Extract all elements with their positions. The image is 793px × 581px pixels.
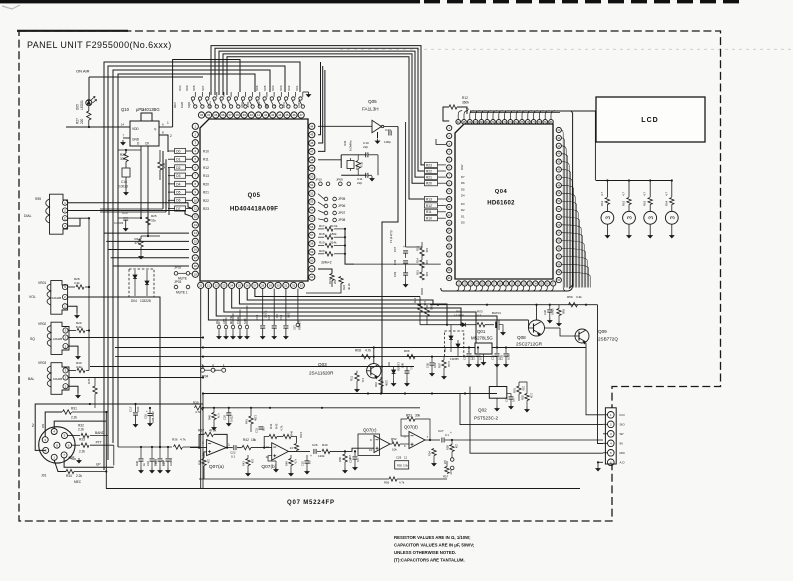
svg-text:Q08: Q08: [517, 335, 526, 340]
svg-text:C02: C02: [472, 355, 476, 360]
svg-text:R38: R38: [198, 460, 202, 465]
svg-text:S08: S08: [192, 85, 196, 91]
svg-text:2SA11620R: 2SA11620R: [309, 371, 334, 376]
diode D03 131555: [392, 370, 396, 374]
svg-text:HD61602: HD61602: [487, 201, 515, 207]
svg-text:3.3k: 3.3k: [403, 464, 409, 468]
wire Q02 connections: [496, 357, 498, 387]
signal tags R13-R10 at Q04: [425, 196, 438, 201]
svg-text:CALL: CALL: [208, 100, 212, 108]
svg-text:D02: D02: [443, 346, 447, 352]
svg-text:Q10: Q10: [121, 107, 130, 112]
svg-text:R19: R19: [319, 241, 325, 245]
svg-text:44: 44: [310, 124, 314, 128]
Q04 left pin column: [447, 125, 452, 130]
svg-text:C06: C06: [401, 363, 405, 368]
wire Q07b out: [288, 450, 310, 452]
svg-text:Q01: Q01: [477, 329, 486, 334]
wire MIC line to amp: [105, 412, 107, 489]
svg-text:JP04: JP04: [201, 375, 208, 379]
svg-text:R61: R61: [600, 200, 604, 206]
svg-text:S02: S02: [287, 85, 291, 91]
svg-text:LOW: LOW: [257, 101, 261, 108]
svg-text:MUTE 1: MUTE 1: [176, 291, 188, 295]
resistor R11 1% left: [355, 373, 359, 381]
resistor R27 220: [88, 106, 90, 111]
svg-text:R42: R42: [243, 438, 249, 442]
svg-text:+: +: [262, 312, 264, 316]
Q05 right pin column: [309, 123, 315, 129]
IC Q04 HD61602 body: [455, 124, 553, 279]
svg-text:R05: R05: [430, 305, 434, 310]
op-amp Q07(a): [207, 440, 227, 456]
svg-text:ON AIR: ON AIR: [76, 69, 90, 74]
wire Q09 emitter to rail: [581, 305, 583, 329]
svg-text:R12: R12: [426, 204, 432, 208]
svg-text:R50: R50: [338, 457, 342, 462]
svg-text:D04: D04: [131, 299, 137, 303]
svg-text:D6: D6: [176, 199, 180, 203]
capacitor C23 0.1: [507, 391, 511, 393]
svg-text:C25: C25: [301, 461, 305, 466]
svg-text:46: 46: [310, 141, 314, 145]
svg-text:30: 30: [277, 283, 281, 287]
svg-text:49: 49: [310, 166, 314, 170]
op-amp Q07(b): [272, 443, 289, 460]
svg-text:3.3k: 3.3k: [576, 295, 582, 299]
svg-text:0.1: 0.1: [445, 433, 449, 437]
wire mid verticals to Q04 bus: [436, 139, 446, 145]
svg-text:BAT01: BAT01: [492, 311, 501, 315]
capacitor C11 22p: [341, 174, 367, 176]
svg-text:4.7k: 4.7k: [280, 425, 284, 431]
svg-text:R21: R21: [426, 176, 432, 180]
resistor R58 22k and jumper: [450, 445, 454, 452]
svg-text:S10: S10: [178, 85, 182, 91]
capacitor C33 100p: [384, 126, 398, 128]
svg-text:R56: R56: [384, 481, 390, 485]
svg-text:D5: D5: [461, 187, 465, 191]
wire top bus Pi-shaped nest: [211, 46, 425, 165]
svg-text:16: 16: [194, 248, 198, 252]
svg-text:R34: R34: [66, 474, 72, 478]
wire Q07a plus gnd: [204, 452, 207, 458]
wire Q08 base line: [528, 327, 530, 329]
svg-text:4.7: 4.7: [600, 192, 604, 196]
svg-text:31: 31: [284, 283, 288, 287]
svg-text:17: 17: [194, 256, 198, 260]
potentiometer VR01 VOL: [51, 281, 68, 315]
svg-text:R11: R11: [426, 210, 432, 214]
svg-text:11: 11: [194, 207, 197, 211]
svg-text:R58: R58: [446, 445, 450, 450]
svg-text:R20: R20: [319, 249, 325, 253]
svg-text:4.7: 4.7: [477, 314, 482, 318]
wire VR01 pin1 gnd: [68, 306, 77, 313]
svg-text:Q05: Q05: [248, 193, 261, 199]
lamp L4 with resistor R64 4.7: [671, 181, 673, 198]
svg-text:43: 43: [271, 113, 275, 117]
svg-text:53: 53: [310, 200, 314, 204]
capacitor C28 12 box: [395, 461, 409, 469]
svg-text:C08: C08: [393, 259, 397, 265]
svg-text:180k: 180k: [330, 232, 337, 236]
svg-text:18k: 18k: [251, 438, 257, 442]
resistor R45 4.7k vertical: [93, 386, 97, 394]
svg-text:+: +: [403, 245, 405, 249]
svg-text:131555: 131555: [397, 362, 401, 371]
svg-text:0.01: 0.01: [287, 312, 291, 318]
svg-text:220k: 220k: [385, 380, 389, 386]
wire Q04 right comb: [561, 130, 563, 288]
svg-text:LED01: LED01: [80, 100, 84, 110]
capacitor C17 0.01: [135, 404, 137, 412]
resistor R16 1M: [356, 161, 360, 169]
wire VR03 wiper: [69, 377, 203, 379]
svg-text:0.0033: 0.0033: [114, 221, 124, 225]
svg-text:C13: C13: [279, 314, 283, 320]
svg-text:100: 100: [449, 470, 453, 475]
svg-text:D2: D2: [461, 208, 465, 212]
svg-text:44: 44: [278, 113, 282, 117]
jumper JP02 MUTE: [174, 272, 178, 276]
svg-text:58: 58: [310, 242, 314, 246]
svg-text:VR02: VR02: [38, 322, 46, 326]
svg-text:JP05: JP05: [338, 197, 345, 201]
svg-text:120k: 120k: [254, 415, 258, 421]
wire left vertical x89: [88, 218, 90, 370]
svg-text:R22: R22: [203, 199, 209, 203]
svg-text:TONE: TONE: [236, 316, 240, 324]
svg-text:R11: R11: [350, 376, 354, 381]
wire rail E bottom (y=488.5): [106, 488, 580, 490]
svg-text:C03: C03: [500, 355, 504, 360]
svg-text:C07: C07: [393, 246, 397, 252]
regulator Q02 PST523C-2: [489, 387, 507, 399]
svg-text:57: 57: [310, 233, 314, 237]
wire VR02 pin1 gnd: [69, 346, 78, 354]
capacitor C20 0.022: [226, 412, 231, 414]
svg-text:133228: 133228: [140, 299, 151, 303]
wire amp out verticals: [460, 394, 603, 425]
wire volume line into amp: [118, 446, 172, 448]
svg-text:33k: 33k: [151, 219, 156, 223]
wire Q04 bottom comb: [455, 286, 459, 291]
svg-text:RESISTOR VALUES ARE IN Ω, 1/10: RESISTOR VALUES ARE IN Ω, 1/10W;: [394, 535, 471, 540]
jumper JP04: [201, 368, 205, 372]
svg-text:C16: C16: [144, 414, 148, 419]
svg-text:R27: R27: [76, 118, 80, 124]
scan artifact: faint gray fold line: [340, 48, 793, 50]
capacitor C18 0.0033: [122, 168, 130, 177]
lamp L2 with resistor R62 4.7: [628, 181, 630, 198]
svg-text:0.1: 0.1: [512, 398, 516, 402]
svg-text:R17: R17: [319, 224, 325, 228]
wire VR03 pin1 gnd: [69, 386, 78, 393]
svg-text:1: 1: [228, 443, 230, 447]
svg-text:D3: D3: [176, 174, 180, 178]
svg-text:12: 12: [404, 456, 408, 460]
wire amp supply line: [203, 407, 420, 409]
svg-text:3: 3: [627, 216, 634, 220]
capacitor C13 0.01: [285, 289, 287, 325]
jumper JP09: [339, 182, 343, 186]
capacitor C13 0.0033 left: [123, 217, 128, 219]
svg-text:R11: R11: [203, 158, 209, 162]
svg-text:R57: R57: [443, 475, 449, 479]
svg-text:R14: R14: [215, 319, 219, 324]
svg-text:3.3%: 3.3%: [447, 361, 451, 368]
svg-text:2SB772Q: 2SB772Q: [598, 337, 618, 342]
resistor R52 10k: [390, 443, 392, 445]
svg-text:MIC: MIC: [620, 451, 626, 455]
svg-text:JP06: JP06: [338, 204, 345, 208]
svg-text:8.2k: 8.2k: [76, 325, 82, 329]
svg-text:R23: R23: [426, 163, 432, 167]
wire rail down to 9V pin: [598, 305, 604, 444]
Q05 top pin row: [198, 112, 204, 118]
wire verticals in amp area: [202, 394, 204, 489]
svg-text:R23: R23: [203, 207, 209, 211]
svg-text:DIAL: DIAL: [24, 214, 32, 218]
svg-text:4.7k: 4.7k: [399, 481, 405, 485]
capacitor C25 0.1: [305, 460, 310, 462]
capacitor C16 10/6.3WV: [149, 408, 151, 413]
svg-text:R01: R01: [513, 388, 517, 393]
resistor R25 33k: [146, 217, 150, 225]
svg-text:S04: S04: [271, 85, 275, 91]
resistor R43 10k below b: [246, 459, 250, 466]
capacitor row below Q01: [468, 348, 470, 354]
svg-text:10k: 10k: [423, 301, 427, 306]
wire Q05 lower-left pins bus: [104, 232, 189, 234]
svg-text:52: 52: [310, 191, 314, 195]
svg-text:Q04: Q04: [495, 189, 508, 195]
svg-text:(T):CAPACITORS ARE TANTALUM.: (T):CAPACITORS ARE TANTALUM.: [394, 558, 465, 563]
wire LCD left edge down to lamp bus: [594, 111, 596, 181]
Q10 pin 7 GND wire: [123, 137, 130, 139]
capacitor C31 0.1: [259, 426, 264, 428]
svg-text:4.7k: 4.7k: [294, 459, 298, 465]
svg-text:0.556: 0.556: [507, 353, 511, 360]
svg-text:45: 45: [310, 133, 314, 137]
svg-text:22k: 22k: [207, 459, 211, 464]
svg-text:MEC: MEC: [74, 480, 82, 484]
svg-text:VR01: VR01: [38, 281, 46, 285]
svg-text:R60: R60: [562, 309, 566, 314]
test point 31T RESET: [297, 289, 299, 323]
svg-text:22p: 22p: [357, 181, 362, 185]
svg-text:10k: 10k: [425, 260, 429, 265]
svg-text:VR04: VR04: [154, 459, 158, 466]
connector J01 (mic jack): [39, 427, 75, 463]
svg-text:LOCK: LOCK: [297, 100, 301, 108]
svg-text:APT: APT: [222, 318, 226, 324]
svg-text:R52: R52: [391, 437, 397, 441]
svg-text:R36: R36: [172, 438, 178, 442]
svg-text:VR03: VR03: [38, 361, 46, 365]
IC Q10 uPD4013BG: [130, 121, 159, 146]
svg-text:R45: R45: [87, 378, 91, 384]
LED D05 LED01: [86, 100, 92, 106]
svg-text:R25: R25: [151, 214, 157, 218]
svg-text:2.2k: 2.2k: [71, 416, 77, 420]
svg-text:4.7k: 4.7k: [195, 410, 201, 414]
svg-text:CPU: CPU: [282, 102, 286, 108]
svg-text:D1: D1: [461, 214, 465, 218]
IC Q05 HD404418A09F body: [200, 119, 308, 281]
svg-text:Q03: Q03: [318, 362, 327, 367]
notes: [394, 535, 475, 563]
svg-text:R45: R45: [275, 423, 279, 429]
svg-text:R20: R20: [203, 182, 209, 186]
svg-text:10kΩB: 10kΩB: [52, 296, 61, 300]
svg-text:R63: R63: [643, 200, 647, 206]
svg-text:13: 13: [194, 223, 198, 227]
svg-text:56: 56: [310, 225, 314, 229]
svg-text:C23: C23: [505, 397, 509, 402]
svg-text:+: +: [310, 454, 312, 458]
svg-text:4.7: 4.7: [664, 192, 668, 196]
jumpers JP05-JP08: [324, 197, 328, 201]
LCD module: [596, 97, 705, 142]
svg-text:R46: R46: [290, 430, 294, 436]
svg-text:C05: C05: [426, 363, 430, 368]
wire inverter output down: [382, 127, 398, 394]
svg-text:3: 3: [648, 216, 655, 220]
svg-text:JP03: JP03: [174, 280, 181, 284]
svg-text:C28: C28: [396, 456, 402, 460]
capacitor C14 2.2(T): [262, 289, 264, 325]
svg-text:R06: R06: [404, 349, 410, 353]
wire into pin6 gnd: [598, 462, 603, 466]
switch column under Q05 (APT MUTE TONE SUB): [218, 322, 220, 326]
resistor R50 22k: [343, 454, 347, 462]
resistor R35 30k: [158, 162, 162, 170]
wire Q08-Q09 link: [545, 327, 561, 329]
Q10 top pins loop: [141, 113, 152, 121]
svg-text:4.7: 4.7: [622, 192, 626, 196]
wire ladder output: [345, 229, 354, 264]
svg-text:131555: 131555: [454, 314, 464, 318]
svg-text:100p: 100p: [384, 140, 391, 144]
page border solid top-left segment: [17, 30, 128, 32]
svg-text:30k: 30k: [415, 414, 421, 418]
wire Q04 left pin stubs: [445, 127, 448, 129]
svg-text:10kΩB: 10kΩB: [53, 337, 62, 341]
wire right pins up-bus: [318, 62, 321, 135]
svg-text:C17: C17: [129, 406, 133, 412]
svg-text:25: 25: [238, 283, 242, 287]
wire bundle terminations: [103, 469, 105, 471]
svg-text:28: 28: [261, 283, 265, 287]
svg-text:20: 20: [199, 283, 203, 287]
svg-text:JP02: JP02: [174, 266, 181, 270]
svg-text:S07: S07: [201, 85, 205, 91]
potentiometer VR03 BAL: [51, 363, 69, 395]
svg-text:D7: D7: [461, 175, 465, 179]
svg-text:12: 12: [194, 215, 198, 219]
svg-text:39: 39: [243, 113, 247, 117]
svg-text:Q07(a): Q07(a): [209, 464, 224, 470]
D0-D7 signal tags at Q05: [175, 148, 186, 153]
svg-text:41: 41: [257, 113, 261, 117]
svg-text:R49: R49: [322, 443, 328, 447]
wire lamp bus: [596, 180, 672, 182]
wire Q07d output to C27: [425, 439, 440, 441]
svg-text:C14: C14: [255, 314, 259, 320]
svg-text:220: 220: [80, 118, 84, 124]
svg-text:C24: C24: [349, 458, 353, 463]
resistor R64 10k: [418, 304, 422, 312]
wire VR01 wiper to volume line: [68, 297, 160, 447]
svg-text:R31: R31: [71, 407, 77, 411]
svg-text:UP: UP: [96, 462, 101, 466]
svg-text:30k: 30k: [120, 157, 126, 161]
svg-text:RESET: RESET: [298, 320, 302, 330]
wire Q09 collector down: [586, 343, 603, 415]
Q10 CK wire: [147, 146, 149, 236]
svg-text:13: 13: [266, 445, 270, 449]
svg-text:C27: C27: [438, 429, 444, 433]
svg-text:61: 61: [310, 267, 314, 271]
svg-text:0.1: 0.1: [308, 460, 312, 464]
scan artifact: black strip along top edge: [0, 0, 420, 3]
svg-text:0.022: 0.022: [230, 415, 234, 422]
wire from Q10 up to bus: [173, 60, 240, 128]
svg-text:C30: C30: [543, 310, 547, 315]
svg-text:R44: R44: [269, 423, 273, 429]
Q10 pin 6 wire: [159, 126, 173, 128]
svg-text:Q09: Q09: [598, 329, 607, 334]
svg-text:14: 14: [290, 446, 294, 450]
svg-text:SIO: SIO: [620, 423, 626, 427]
svg-text:21: 21: [207, 283, 211, 287]
svg-text:51: 51: [310, 183, 314, 187]
svg-text:Q07(d): Q07(d): [404, 425, 418, 430]
svg-text:C31: C31: [491, 355, 495, 360]
op-amp Q07(d): [409, 432, 425, 449]
wire Q04 right bus vertical: [569, 111, 573, 289]
resistor R26 30k: [125, 150, 127, 153]
svg-text:PANEL UNIT F2955000(No.6xxx): PANEL UNIT F2955000(No.6xxx): [27, 40, 172, 50]
svg-text:R07: R07: [438, 363, 442, 368]
svg-text:SP: SP: [620, 432, 624, 436]
svg-text:45: 45: [285, 113, 289, 117]
svg-text:R13: R13: [426, 197, 432, 201]
svg-text:D5: D5: [176, 191, 180, 195]
resistor R48 4.7k below b: [289, 459, 293, 466]
svg-text:15: 15: [194, 239, 198, 243]
svg-text:90.6k: 90.6k: [330, 224, 338, 228]
svg-text:36: 36: [221, 113, 225, 117]
transistor Q08 2SC2712GR: [529, 320, 545, 336]
svg-text:D4: D4: [176, 182, 180, 186]
dashed box D02 131555: [444, 331, 463, 357]
svg-text:38: 38: [236, 113, 240, 117]
jumper JP10: [319, 182, 323, 186]
wire ON AIR net: [89, 76, 203, 78]
svg-text:C19: C19: [146, 461, 150, 466]
svg-text:R33: R33: [79, 438, 85, 442]
wire rail B (y=356.6): [115, 356, 497, 358]
svg-text:R12: R12: [203, 166, 209, 170]
svg-text:46: 46: [292, 113, 296, 117]
svg-text:LCD: LCD: [641, 117, 658, 124]
jumper JP03 MUTE 1: [174, 285, 178, 289]
svg-text:LP: LP: [273, 104, 277, 108]
svg-text:BAL: BAL: [28, 377, 35, 381]
